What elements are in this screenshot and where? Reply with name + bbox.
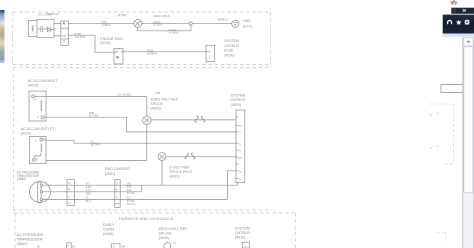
svg-text:SPLICE PACK: SPLICE PACK: [170, 170, 193, 174]
svg-text:(3662): (3662): [17, 177, 26, 181]
svg-text:HARNESS AND I/O MODULE: HARNESS AND I/O MODULE: [119, 217, 174, 221]
svg-text:(4001): (4001): [105, 172, 115, 176]
svg-text:SPLICE: SPLICE: [159, 232, 173, 236]
svg-text:(4013): (4013): [100, 41, 110, 45]
svg-text:B: B: [36, 158, 38, 162]
svg-text:A: A: [208, 50, 210, 54]
svg-text:A20B 12: A20B 12: [217, 18, 228, 22]
svg-text:CONN: CONN: [103, 227, 114, 231]
svg-text:BLUE: BLUE: [224, 49, 234, 53]
svg-text:(4036): (4036): [224, 53, 234, 57]
svg-text:104 PNK: 104 PNK: [74, 35, 86, 39]
svg-text:A: A: [37, 115, 39, 119]
svg-text:(3662): (3662): [17, 242, 28, 246]
svg-text:RED: RED: [86, 192, 91, 195]
svg-text:TT: TT: [173, 242, 177, 245]
svg-text:D: D: [69, 202, 71, 205]
svg-text:ZERO VOLT REF: ZERO VOLT REF: [159, 227, 189, 231]
svg-text:CNTRLR: CNTRLR: [224, 44, 239, 48]
svg-text:Z1 18 BLK: Z1 18 BLK: [118, 92, 132, 96]
svg-text:18 BRN: 18 BRN: [147, 52, 157, 56]
svg-text:(5704): (5704): [118, 13, 126, 17]
svg-text:M: M: [113, 245, 115, 248]
svg-text:(4010): (4010): [21, 132, 31, 136]
svg-text:SYSTEM: SYSTEM: [231, 93, 246, 97]
svg-text:(4036): (4036): [235, 236, 246, 240]
svg-text:EARLY: EARLY: [103, 223, 115, 227]
svg-text:18 TAN: 18 TAN: [90, 142, 100, 146]
svg-text:SYSTEM: SYSTEM: [235, 226, 250, 230]
svg-text:B: B: [34, 98, 36, 102]
svg-text:(4020): (4020): [170, 174, 180, 178]
svg-text:30.75A: 30.75A: [127, 192, 135, 195]
svg-text:FWD CHASSIS: FWD CHASSIS: [105, 167, 131, 171]
svg-text:C: C: [69, 196, 71, 199]
svg-text:A/C-7A: A/C-7A: [127, 203, 135, 206]
svg-text:103: 103: [62, 34, 67, 38]
svg-text:18 TAN: 18 TAN: [89, 114, 99, 118]
svg-text:CNTRLR: CNTRLR: [231, 98, 246, 102]
svg-text:6 VOLT REF: 6 VOLT REF: [170, 165, 190, 169]
svg-text:BLU: BLU: [86, 200, 91, 203]
svg-text:(4004): (4004): [231, 103, 241, 107]
svg-text:AC ACCUM INLET: AC ACCUM INLET: [28, 79, 58, 83]
svg-text:AC ACCUM OUTLET: AC ACCUM OUTLET: [21, 127, 55, 131]
svg-text:14 BLK: 14 BLK: [153, 23, 163, 27]
svg-text:(4003): (4003): [151, 106, 161, 110]
svg-text:(4016): (4016): [28, 84, 38, 88]
svg-text:A: A: [35, 139, 37, 143]
svg-text:CNTRLR: CNTRLR: [235, 231, 250, 235]
svg-text:GND: GND: [243, 19, 251, 23]
svg-text:C: C: [116, 182, 118, 185]
svg-text:14 BLK: 14 BLK: [102, 23, 112, 27]
svg-text:(4163): (4163): [103, 232, 114, 236]
svg-text:SPLICE: SPLICE: [151, 102, 164, 106]
svg-text:A: A: [67, 244, 69, 248]
svg-text:B: B: [63, 39, 65, 43]
svg-text:A20A 14 BLK: A20A 14 BLK: [154, 14, 170, 18]
svg-text:CLUTCH: CLUTCH: [47, 12, 59, 16]
svg-text:14 BLK: 14 BLK: [169, 31, 179, 35]
svg-text:a.: a.: [430, 114, 432, 117]
svg-text:ZERO VOLT REF: ZERO VOLT REF: [151, 98, 179, 102]
svg-text:(ETC): (ETC): [243, 25, 252, 29]
svg-text:SYSTEM: SYSTEM: [224, 39, 239, 43]
svg-text:e.: e.: [430, 147, 432, 150]
svg-text:(4030): (4030): [159, 236, 170, 240]
svg-text:27B: 27B: [155, 91, 160, 95]
